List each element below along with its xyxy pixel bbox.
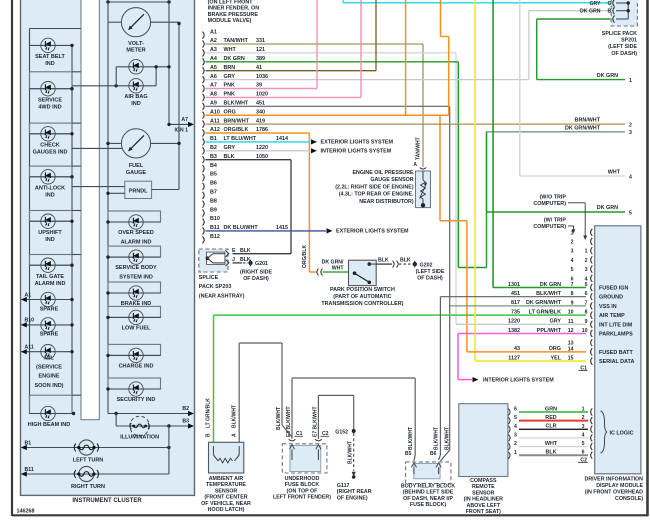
svg-text:4WD IND: 4WD IND	[38, 104, 61, 110]
ambient air temperature sensor	[201, 442, 251, 513]
svg-text:7: 7	[571, 282, 574, 288]
svg-text:(BEHIND LEFT SIDE: (BEHIND LEFT SIDE	[403, 490, 454, 496]
svg-text:9: 9	[585, 319, 588, 325]
svg-text:E7 BLK/WHT: E7 BLK/WHT	[313, 406, 319, 437]
svg-text:AIR BAG: AIR BAG	[124, 94, 147, 100]
svg-text:B12: B12	[210, 234, 220, 240]
engine oil pressure gauge sensor	[335, 137, 430, 207]
svg-text:AMBIENT AIR: AMBIENT AIR	[209, 476, 244, 482]
brake indicator	[106, 282, 160, 307]
svg-text:B9: B9	[210, 207, 217, 213]
wire BLK park switch to G202	[376, 257, 445, 281]
svg-text:ILLUMINATION: ILLUMINATION	[120, 435, 159, 441]
illumination lamp B3	[116, 414, 194, 441]
svg-text:(FRONT CENTER: (FRONT CENTER	[204, 495, 247, 501]
left turn lamp	[21, 426, 171, 474]
svg-text:BRAKE PRESSURE: BRAKE PRESSURE	[208, 12, 259, 18]
svg-text:IND: IND	[45, 192, 55, 198]
svg-text:UPSHIFT: UPSHIFT	[38, 230, 62, 236]
ground G152 / G117	[335, 429, 371, 502]
right turn lamp	[21, 466, 169, 490]
svg-text:B10: B10	[25, 318, 35, 324]
svg-text:2: 2	[514, 441, 517, 447]
A7 IGN 1 pin arrow	[167, 117, 194, 133]
svg-text:5: 5	[571, 267, 574, 273]
wire BLK/WHT E7 to G152	[318, 395, 353, 439]
wire PPL/WHT 1382 parklamps	[458, 334, 586, 384]
svg-text:OVER SPEED: OVER SPEED	[118, 230, 154, 236]
svg-text:EXTERIOR LIGHTS SYSTEM: EXTERIOR LIGHTS SYSTEM	[336, 229, 409, 235]
svg-text:8: 8	[585, 310, 588, 316]
wire A10 ORG 340	[206, 0, 449, 115]
svg-text:BLK/WHT: BLK/WHT	[348, 441, 354, 464]
svg-text:B11: B11	[25, 467, 34, 473]
svg-text:A: A	[413, 162, 417, 168]
svg-text:451: 451	[256, 101, 265, 107]
svg-text:ANTI-LOCK: ANTI-LOCK	[35, 185, 65, 191]
svg-text:CLR: CLR	[545, 424, 556, 430]
cluster internal bus wire B	[168, 2, 170, 124]
svg-text:4: 4	[582, 432, 585, 438]
instrument cluster panel	[21, 0, 195, 504]
svg-text:1050: 1050	[256, 154, 268, 160]
svg-text:NEAR DISTRIBUTOR): NEAR DISTRIBUTOR)	[359, 199, 414, 205]
svg-text:15: 15	[568, 356, 574, 362]
svg-text:COMPUTER): COMPUTER)	[533, 224, 566, 230]
svg-text:2: 2	[582, 415, 585, 421]
svg-text:METER: METER	[126, 48, 145, 54]
svg-text:GAUGE SENSOR: GAUGE SENSOR	[370, 177, 413, 183]
svg-text:DK GRN/: DK GRN/	[322, 260, 344, 266]
svg-text:SPLICE: SPLICE	[199, 275, 219, 281]
svg-text:3: 3	[514, 433, 517, 439]
svg-text:COMPUTER): COMPUTER)	[533, 201, 566, 207]
svg-text:B: B	[206, 433, 212, 437]
svg-text:(IN FRONT OVERHEAD: (IN FRONT OVERHEAD	[585, 490, 643, 496]
wire BLK/WHT 451 DIDM ground to B6	[439, 297, 441, 460]
wire WHT 4 to right edge	[520, 0, 632, 181]
wire DK GRN 5 to right edge	[487, 205, 633, 216]
svg-text:DRIVER INFORMATION: DRIVER INFORMATION	[585, 477, 644, 483]
svg-text:HOOD LATCH): HOOD LATCH)	[208, 507, 245, 513]
svg-text:(2.2L: RIGHT SIDE OF ENGINE): (2.2L: RIGHT SIDE OF ENGINE)	[335, 184, 414, 190]
body relay block	[401, 427, 456, 508]
svg-text:REMOTE: REMOTE	[472, 484, 495, 490]
svg-text:3: 3	[582, 424, 585, 430]
svg-text:UNDERHOOD: UNDERHOOD	[285, 476, 320, 482]
svg-text:1: 1	[514, 450, 517, 456]
svg-text:3: 3	[585, 267, 588, 273]
svg-text:CONSOLE): CONSOLE)	[615, 496, 643, 502]
svg-text:PRNDL: PRNDL	[129, 189, 148, 195]
svg-text:(LEFT SIDE: (LEFT SIDE	[608, 44, 637, 50]
svg-text:2: 2	[571, 240, 574, 246]
svg-text:E: E	[232, 248, 236, 254]
svg-text:BRN/WHT: BRN/WHT	[575, 118, 601, 124]
svg-text:YEL: YEL	[551, 355, 562, 361]
svg-text:(SERVICE: (SERVICE	[36, 365, 62, 371]
svg-text:1: 1	[585, 249, 588, 255]
svg-text:419: 419	[256, 118, 265, 124]
svg-text:WHT: WHT	[608, 170, 621, 176]
svg-text:6: 6	[514, 407, 517, 413]
svg-text:A: A	[232, 433, 238, 437]
svg-text:A5: A5	[210, 65, 217, 71]
right return bus wire (left column)	[71, 45, 73, 413]
svg-text:G202: G202	[420, 262, 433, 268]
svg-text:SP201: SP201	[621, 38, 637, 44]
low fuel indicator	[106, 306, 160, 331]
wire A6 GRY 1036	[206, 11, 611, 80]
DIDM wire row labels	[508, 282, 562, 362]
svg-text:FRONT SEAT): FRONT SEAT)	[466, 509, 501, 515]
wire YEL 1127 serial data	[475, 0, 586, 361]
svg-text:ABOVE LEFT: ABOVE LEFT	[467, 503, 501, 509]
svg-text:(W/ TRIP: (W/ TRIP	[544, 217, 567, 223]
svg-text:B5: B5	[210, 172, 217, 178]
svg-text:LT GRN/BLK: LT GRN/BLK	[206, 398, 212, 428]
svg-text:12: 12	[568, 328, 574, 334]
svg-text:WHT: WHT	[545, 441, 558, 447]
wire DK GRN/WHT 817 vss	[450, 132, 586, 306]
svg-text:FUSE BLOCK: FUSE BLOCK	[285, 482, 320, 488]
wire ORG/BLK to park switch connector	[309, 269, 322, 276]
MIL indicator A11	[21, 345, 74, 389]
svg-text:3: 3	[629, 130, 632, 136]
svg-text:SERVICE: SERVICE	[38, 97, 62, 103]
security indicator	[106, 378, 160, 403]
svg-text:AIR TEMP: AIR TEMP	[599, 313, 625, 319]
svg-text:HIGH BEAM IND: HIGH BEAM IND	[28, 422, 71, 428]
svg-text:451: 451	[511, 291, 520, 297]
svg-text:LEFT FRONT FENDER): LEFT FRONT FENDER)	[273, 495, 331, 501]
svg-text:7: 7	[585, 300, 588, 306]
svg-text:SERVICE BODY: SERVICE BODY	[115, 265, 157, 271]
svg-text:GAUGES IND: GAUGES IND	[33, 149, 68, 155]
svg-text:LT GRN/BLK: LT GRN/BLK	[529, 309, 561, 315]
svg-text:A8: A8	[210, 92, 217, 98]
svg-text:EXTERIOR LIGHTS SYSTEM: EXTERIOR LIGHTS SYSTEM	[321, 140, 394, 146]
wire DK GRN/WHT to park switch	[322, 260, 349, 273]
svg-text:3: 3	[571, 249, 574, 255]
W/ trip computer note	[533, 217, 575, 233]
svg-text:PPL/WHT: PPL/WHT	[537, 328, 562, 334]
svg-text:BLK/WHT: BLK/WHT	[224, 101, 250, 107]
svg-text:5: 5	[582, 441, 585, 447]
svg-text:146268: 146268	[17, 509, 35, 515]
wire A12 ORG/BLK 1786	[206, 133, 310, 272]
cluster connector pin brackets	[203, 32, 205, 244]
svg-text:B6: B6	[430, 451, 437, 457]
svg-text:A1: A1	[210, 29, 217, 35]
high beam indicator	[28, 395, 81, 428]
svg-text:2: 2	[585, 258, 588, 264]
svg-text:G152: G152	[335, 430, 348, 436]
svg-text:SPARE: SPARE	[40, 306, 59, 312]
svg-text:1: 1	[629, 78, 632, 84]
svg-text:BODY RELAY BLOCK: BODY RELAY BLOCK	[401, 484, 456, 490]
wire DK GRN splice to right edge 1	[537, 19, 632, 84]
svg-text:A11: A11	[25, 345, 34, 351]
wire ORG to fused batt	[440, 115, 467, 352]
svg-text:OF DASH, NEAR I/P: OF DASH, NEAR I/P	[403, 496, 453, 502]
svg-text:(RIGHT SIDE: (RIGHT SIDE	[240, 270, 273, 276]
svg-text:4: 4	[571, 258, 574, 264]
svg-text:DK GRN: DK GRN	[597, 205, 618, 211]
svg-text:BLK/WHT: BLK/WHT	[408, 427, 414, 450]
svg-text:A7: A7	[210, 83, 217, 89]
middle left bus wire	[107, 2, 109, 414]
svg-text:10: 10	[582, 328, 588, 334]
seat belt indicator	[30, 29, 82, 68]
svg-text:ALARM IND: ALARM IND	[121, 240, 152, 246]
wire B11 DK BLU/WHT 1415 exterior lights	[206, 228, 409, 234]
svg-text:DK GRN: DK GRN	[580, 9, 601, 15]
anti-lock indicator	[30, 166, 82, 198]
svg-text:G117: G117	[337, 483, 350, 489]
wire ORG 43 fused batt	[467, 351, 586, 353]
svg-text:BLK: BLK	[400, 257, 411, 263]
left bus wire	[29, 29, 31, 414]
svg-text:INSTRUMENT CLUSTER: INSTRUMENT CLUSTER	[72, 498, 142, 504]
svg-text:PARK POSITION SWITCH: PARK POSITION SWITCH	[330, 287, 395, 293]
svg-text:IND: IND	[45, 237, 55, 243]
svg-text:PNK: PNK	[224, 83, 235, 89]
svg-text:1220: 1220	[256, 145, 268, 151]
wire A7 PNK 39	[206, 0, 318, 89]
svg-text:A2: A2	[210, 38, 217, 44]
svg-text:FUEL: FUEL	[129, 163, 144, 169]
svg-text:G: G	[608, 1, 612, 7]
svg-text:BLK: BLK	[224, 154, 235, 160]
svg-text:B8: B8	[210, 198, 217, 204]
top bus wire	[106, 0, 170, 3]
svg-text:1020: 1020	[256, 92, 268, 98]
svg-text:8: 8	[571, 291, 574, 297]
svg-text:BLK: BLK	[378, 257, 389, 263]
svg-text:OF DASH): OF DASH)	[417, 276, 443, 282]
wire A9 BLK/WHT 451	[206, 106, 450, 461]
svg-text:INTERIOR LIGHTS SYSTEM: INTERIOR LIGHTS SYSTEM	[321, 149, 392, 155]
svg-text:A11: A11	[210, 118, 220, 124]
svg-text:1127: 1127	[508, 355, 520, 361]
svg-text:PACK SP203: PACK SP203	[199, 284, 232, 290]
svg-text:817: 817	[511, 300, 520, 306]
svg-text:ALARM IND: ALARM IND	[35, 281, 66, 287]
svg-text:SPLICE PACK: SPLICE PACK	[602, 31, 637, 37]
svg-text:B1: B1	[25, 440, 32, 446]
svg-text:PARKLAMPS: PARKLAMPS	[599, 332, 633, 338]
svg-text:RIGHT TURN: RIGHT TURN	[71, 484, 105, 490]
svg-text:B3: B3	[210, 154, 217, 160]
svg-text:SENSOR: SENSOR	[472, 490, 495, 496]
wire LT BLU/WHT to splice pack G	[343, 0, 611, 3]
svg-text:FUSE BLOCK): FUSE BLOCK)	[410, 502, 446, 508]
svg-text:TAN/WHT: TAN/WHT	[224, 38, 249, 44]
PRNDL module	[72, 181, 179, 198]
charge indicator	[106, 344, 160, 369]
svg-text:11: 11	[568, 319, 574, 325]
svg-text:GRY: GRY	[550, 319, 562, 325]
svg-text:(IN HEADLINER: (IN HEADLINER	[464, 497, 504, 503]
W/O trip computer note	[533, 194, 587, 240]
svg-text:ENGINE: ENGINE	[38, 374, 59, 380]
svg-text:WHT: WHT	[224, 47, 237, 53]
svg-text:INNER FENDER, ON: INNER FENDER, ON	[208, 6, 260, 12]
svg-text:1: 1	[582, 407, 585, 413]
svg-text:COMPASS: COMPASS	[470, 478, 497, 484]
compass remote sensor	[459, 404, 508, 516]
svg-text:WHT: WHT	[332, 266, 345, 272]
svg-text:FUSED BATT: FUSED BATT	[599, 350, 633, 356]
svg-text:B6: B6	[210, 181, 217, 187]
svg-text:GRN: GRN	[545, 406, 557, 412]
svg-text:BLK/WHT: BLK/WHT	[434, 427, 440, 450]
svg-text:BLK: BLK	[240, 248, 251, 254]
svg-text:FUSED IGN: FUSED IGN	[599, 286, 628, 292]
wire B1 LT BLU/WHT 1414 exterior lights	[206, 139, 394, 145]
cluster connector pin labels	[210, 29, 288, 240]
svg-text:A3: A3	[210, 47, 217, 53]
svg-text:BLK: BLK	[545, 450, 556, 456]
service body system indicator	[106, 246, 160, 281]
svg-text:INTERIOR LIGHTS SYSTEM: INTERIOR LIGHTS SYSTEM	[483, 378, 554, 384]
svg-text:A7: A7	[181, 117, 188, 123]
svg-text:9: 9	[571, 300, 574, 306]
service 4WD indicator	[30, 72, 82, 111]
svg-text:DK GRN: DK GRN	[540, 282, 561, 288]
svg-text:5: 5	[585, 282, 588, 288]
ground G201	[233, 260, 273, 282]
svg-text:BRN: BRN	[224, 65, 236, 71]
wire A11 BRN/WHT 419 to right edge 2	[206, 118, 633, 129]
svg-text:GROUND: GROUND	[599, 295, 623, 301]
wire BLK/WHT 451 ground row	[440, 296, 586, 298]
svg-text:GRY: GRY	[224, 145, 236, 151]
svg-text:CHARGE IND: CHARGE IND	[119, 363, 154, 369]
svg-text:331: 331	[256, 38, 265, 44]
svg-text:RED: RED	[545, 415, 556, 421]
svg-text:DK GRN: DK GRN	[597, 73, 618, 79]
svg-text:LOW FUEL: LOW FUEL	[122, 325, 151, 331]
svg-text:G201: G201	[255, 261, 268, 267]
air bag indicator (dual)	[72, 60, 171, 107]
svg-text:4: 4	[514, 424, 517, 430]
svg-text:TRANSMISSION CONTROLLER): TRANSMISSION CONTROLLER)	[321, 301, 403, 307]
svg-text:TAIL GATE: TAIL GATE	[36, 274, 64, 280]
svg-text:VSS IN: VSS IN	[599, 304, 617, 310]
wire DK GRN 1301 fused ign	[493, 0, 586, 288]
svg-text:14: 14	[568, 346, 574, 352]
svg-text:OF DASH): OF DASH)	[243, 276, 269, 282]
svg-text:41: 41	[256, 65, 262, 71]
svg-text:4: 4	[629, 175, 632, 181]
wire A4 DK GRN 389	[206, 62, 487, 268]
svg-text:IND: IND	[45, 61, 55, 67]
wire BLK/WHT fuse block loop to body relay B5	[292, 378, 415, 461]
svg-text:(PART OF AUTOMATIC: (PART OF AUTOMATIC	[333, 294, 391, 300]
svg-text:121: 121	[256, 47, 265, 53]
svg-text:ORG/BLK: ORG/BLK	[302, 245, 308, 268]
svg-text:10: 10	[568, 310, 574, 316]
svg-text:6: 6	[585, 291, 588, 297]
svg-text:43: 43	[514, 346, 520, 352]
svg-text:DK GRN/WHT: DK GRN/WHT	[526, 300, 562, 306]
tail gate alarm indicator	[30, 255, 82, 287]
svg-text:1036: 1036	[256, 74, 268, 80]
svg-text:BRN/WHT: BRN/WHT	[224, 118, 250, 124]
svg-text:TAN/WHT: TAN/WHT	[416, 137, 422, 160]
splice pack SP201	[580, 0, 637, 57]
svg-text:B3: B3	[182, 419, 189, 425]
svg-text:(NEAR ASHTRAY): (NEAR ASHTRAY)	[199, 293, 245, 299]
over speed alarm indicator	[106, 211, 160, 246]
DIDM text label	[585, 477, 644, 503]
svg-text:SOON IND): SOON IND)	[34, 383, 63, 389]
svg-text:B2: B2	[210, 145, 217, 151]
svg-text:CHECK: CHECK	[40, 142, 60, 148]
svg-text:B2: B2	[182, 406, 189, 412]
node B2 label (ambient area)	[206, 398, 212, 437]
svg-text:BLK/WHT: BLK/WHT	[445, 427, 451, 450]
svg-text:LEFT TURN: LEFT TURN	[73, 458, 104, 464]
SPARE indicator A1	[21, 292, 74, 312]
wire LT GRN/BLK 735 air temp	[214, 315, 587, 442]
wire A5 BRN 41	[206, 0, 377, 71]
svg-text:SPARE: SPARE	[40, 332, 59, 338]
svg-text:5: 5	[629, 210, 632, 216]
svg-text:SYSTEM IND: SYSTEM IND	[119, 275, 153, 281]
svg-text:(LEFT SIDE: (LEFT SIDE	[416, 269, 445, 275]
wire A3 WHT 121	[206, 53, 457, 324]
park position switch	[321, 260, 403, 307]
svg-text:39: 39	[256, 83, 262, 89]
DIDM connector C1 brackets and pins	[568, 229, 593, 372]
svg-text:OF ENGINE): OF ENGINE)	[337, 496, 368, 502]
svg-text:(W/O TRIP: (W/O TRIP	[540, 194, 567, 200]
svg-text:1220: 1220	[508, 319, 520, 325]
svg-text:OF DASH): OF DASH)	[611, 51, 637, 57]
IC logic brace	[601, 411, 634, 453]
svg-text:B5: B5	[405, 451, 412, 457]
svg-text:MIL: MIL	[44, 355, 54, 361]
svg-text:ORG: ORG	[549, 346, 561, 352]
svg-text:INT LITE DIM: INT LITE DIM	[599, 322, 633, 328]
svg-text:1382: 1382	[508, 328, 520, 334]
svg-text:MODULE VALVE): MODULE VALVE)	[208, 18, 252, 24]
volt-meter gauge	[108, 8, 181, 54]
svg-text:A1: A1	[25, 292, 32, 298]
svg-text:(RIGHT REAR: (RIGHT REAR	[337, 489, 372, 495]
svg-text:BLK/WHT: BLK/WHT	[276, 407, 282, 430]
svg-text:2: 2	[629, 122, 632, 128]
svg-text:BLK/WHT: BLK/WHT	[536, 291, 562, 297]
svg-text:DISPLAY MODULE: DISPLAY MODULE	[596, 483, 643, 489]
header text brake pressure module valve	[208, 0, 260, 24]
svg-text:SERIAL DATA: SERIAL DATA	[599, 359, 634, 365]
svg-text:IC LOGIC: IC LOGIC	[610, 431, 634, 437]
driver information display module	[595, 226, 641, 474]
svg-text:6: 6	[582, 450, 585, 456]
DIDM function labels	[599, 286, 634, 366]
fuel gauge	[72, 129, 181, 176]
svg-text:B10: B10	[210, 216, 220, 222]
svg-text:BLK/WHT: BLK/WHT	[232, 405, 238, 428]
B2 pin arrow wire	[108, 406, 194, 416]
underhood fuse block	[273, 406, 331, 500]
svg-text:IGN 1: IGN 1	[174, 127, 188, 133]
svg-text:PNK: PNK	[224, 92, 235, 98]
